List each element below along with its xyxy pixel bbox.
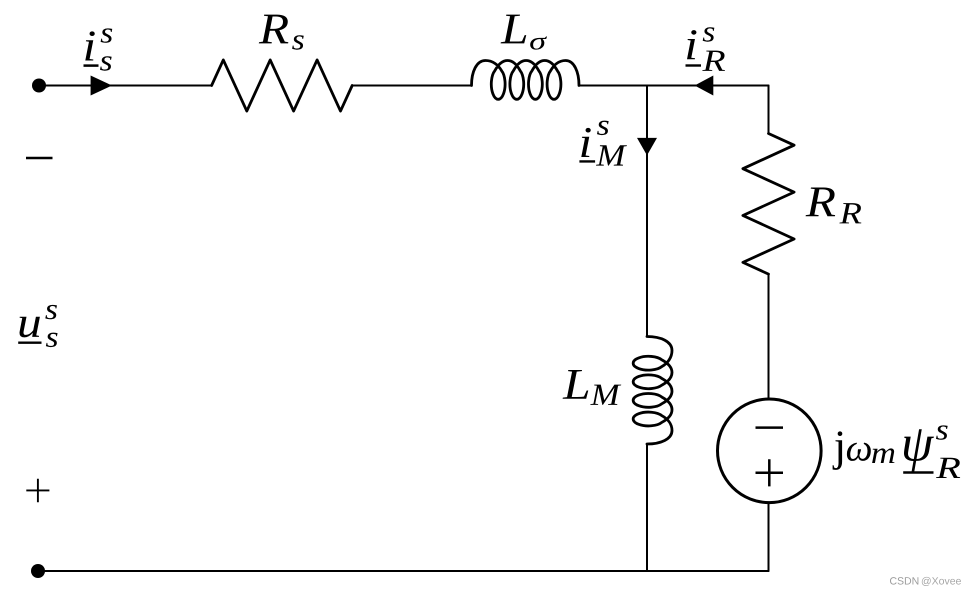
resistor Rs — [212, 60, 353, 111]
arrow current is, points right — [91, 76, 112, 96]
label resistor R_R — [806, 187, 836, 216]
wire right branch between RR and source — [768, 274, 770, 399]
label watermark CSDN @Xovee — [890, 577, 897, 584]
label voltage u_s^s — [20, 317, 40, 338]
wire top-left from input terminal to resistor Rs — [39, 85, 212, 87]
label minus polarity left — [26, 157, 53, 159]
wire middle branch from node to inductor LM — [646, 86, 648, 337]
label resistor R_s — [259, 15, 289, 44]
wire right branch below source — [768, 502, 770, 571]
label inductor L_M — [563, 370, 589, 399]
wire from inductor Lsigma across node to top-right corner — [579, 85, 769, 87]
source plus sign — [756, 459, 784, 486]
label plus polarity left — [26, 479, 49, 503]
inductor Lsigma — [472, 61, 580, 100]
arrow current iM, points down — [637, 138, 657, 156]
resistor RR — [743, 134, 794, 275]
arrow current iR, points left — [695, 76, 714, 96]
label current i_M^s — [581, 128, 590, 157]
wire between resistor Rs and inductor Lsigma — [352, 85, 471, 87]
source jwm-psiR circle — [718, 399, 822, 503]
wire right branch top segment — [768, 86, 770, 134]
inductor LM — [633, 337, 672, 445]
wire middle branch below LM — [646, 444, 648, 571]
label inductor L_sigma — [501, 15, 527, 44]
source minus sign — [756, 426, 784, 429]
label current i_R^s — [687, 30, 696, 59]
node output terminal dot bottom-left — [31, 564, 45, 578]
wire bottom return — [38, 570, 769, 572]
node input terminal dot top-left — [32, 79, 46, 93]
label source EMF j omega_m psi_R^s — [833, 431, 843, 469]
label current i_s^s — [85, 31, 94, 60]
